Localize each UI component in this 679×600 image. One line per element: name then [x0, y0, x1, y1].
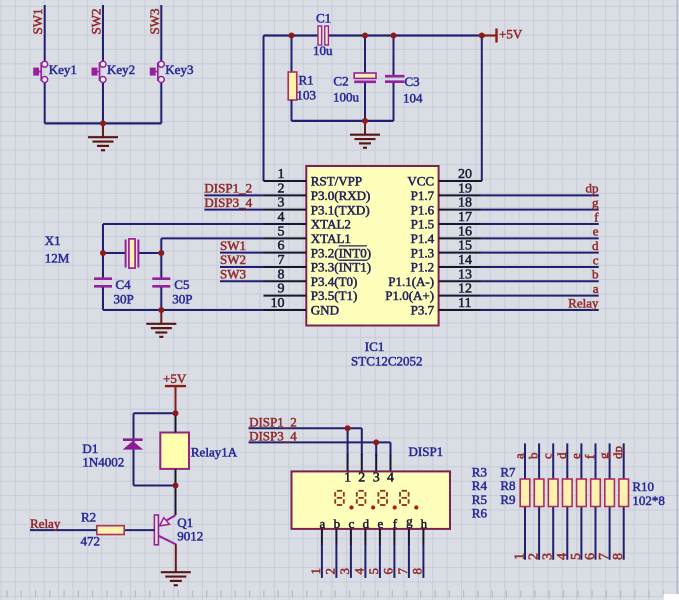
- svg-text:6: 6: [380, 568, 395, 575]
- svg-text:P3.3(INT1): P3.3(INT1): [311, 260, 371, 275]
- svg-text:g: g: [406, 514, 413, 529]
- svg-text:P1.5: P1.5: [411, 217, 434, 232]
- svg-text:f: f: [594, 209, 599, 224]
- svg-text:DISP3_4: DISP3_4: [249, 429, 297, 444]
- svg-text:dp: dp: [610, 446, 625, 459]
- svg-text:4: 4: [278, 210, 285, 225]
- svg-text:6: 6: [583, 553, 598, 560]
- svg-text:1: 1: [344, 471, 351, 486]
- svg-text:g: g: [596, 452, 611, 459]
- svg-text:a: a: [512, 453, 527, 459]
- svg-text:P3.2(INT0): P3.2(INT0): [311, 245, 371, 260]
- svg-text:b: b: [334, 516, 341, 531]
- svg-text:C2: C2: [333, 74, 348, 89]
- svg-text:R2: R2: [81, 510, 96, 525]
- svg-text:f: f: [582, 454, 597, 459]
- svg-text:Relay: Relay: [30, 516, 61, 531]
- svg-text:XTAL1: XTAL1: [311, 231, 351, 246]
- svg-text:a: a: [320, 516, 326, 531]
- svg-text:RST/VPP: RST/VPP: [311, 174, 362, 189]
- svg-text:13: 13: [458, 267, 472, 282]
- svg-text:12M: 12M: [45, 251, 70, 266]
- svg-text:b: b: [592, 267, 599, 282]
- svg-text:SW2: SW2: [89, 9, 104, 35]
- svg-text:2: 2: [527, 553, 542, 560]
- svg-text:P1.2: P1.2: [411, 260, 434, 275]
- svg-text:7: 7: [395, 568, 410, 575]
- svg-text:P1.1(A-): P1.1(A-): [388, 274, 434, 289]
- svg-text:b: b: [526, 453, 541, 460]
- svg-text:P3.4(T0): P3.4(T0): [311, 274, 358, 289]
- svg-text:X1: X1: [45, 233, 61, 248]
- svg-text:14: 14: [458, 253, 472, 268]
- svg-text:1: 1: [278, 167, 285, 182]
- svg-text:R5: R5: [472, 492, 487, 507]
- svg-text:3: 3: [373, 471, 380, 486]
- svg-text:R7: R7: [500, 464, 516, 479]
- svg-text:R4: R4: [472, 478, 488, 493]
- svg-text:9012: 9012: [177, 529, 203, 544]
- svg-text:18: 18: [458, 196, 472, 211]
- svg-text:STC12C2052: STC12C2052: [351, 354, 423, 369]
- svg-text:SW3: SW3: [147, 9, 162, 35]
- svg-text:30P: 30P: [114, 292, 134, 307]
- svg-text:P3.7: P3.7: [411, 303, 435, 318]
- svg-text:DISP1: DISP1: [409, 444, 444, 459]
- svg-text:4: 4: [387, 471, 394, 486]
- svg-text:SW1: SW1: [30, 9, 45, 35]
- svg-text:GND: GND: [311, 303, 339, 318]
- svg-text:C3: C3: [405, 74, 420, 89]
- svg-text:VCC: VCC: [407, 174, 434, 189]
- svg-text:R3: R3: [472, 464, 487, 479]
- svg-text:2: 2: [278, 181, 285, 196]
- svg-text:XTAL2: XTAL2: [311, 217, 351, 232]
- svg-text:Key1: Key1: [49, 62, 77, 77]
- svg-text:R6: R6: [472, 506, 488, 521]
- svg-text:Relay1A: Relay1A: [191, 445, 238, 460]
- svg-text:Key3: Key3: [165, 62, 193, 77]
- svg-text:a: a: [593, 281, 599, 296]
- svg-text:4: 4: [555, 553, 570, 560]
- svg-text:103: 103: [297, 88, 317, 103]
- svg-text:3: 3: [278, 196, 285, 211]
- svg-text:R1: R1: [299, 73, 314, 88]
- svg-text:C4: C4: [116, 277, 132, 292]
- svg-text:10u: 10u: [313, 43, 333, 58]
- svg-text:104: 104: [403, 91, 423, 106]
- svg-text:5: 5: [366, 568, 381, 575]
- svg-text:d: d: [554, 452, 569, 459]
- svg-text:SW3: SW3: [220, 267, 246, 282]
- svg-text:7: 7: [597, 553, 612, 560]
- svg-text:P3.1(TXD): P3.1(TXD): [311, 202, 370, 217]
- svg-text:e: e: [568, 453, 583, 459]
- svg-text:f: f: [393, 516, 398, 531]
- svg-text:15: 15: [458, 239, 472, 254]
- svg-text:10: 10: [271, 296, 285, 311]
- svg-text:c: c: [349, 516, 355, 531]
- svg-text:h: h: [421, 516, 428, 531]
- svg-text:Key2: Key2: [107, 62, 135, 77]
- svg-text:g: g: [592, 195, 599, 210]
- svg-text:DISP1_2: DISP1_2: [204, 181, 252, 196]
- svg-text:c: c: [540, 453, 555, 459]
- svg-text:5: 5: [278, 224, 285, 239]
- svg-text:5: 5: [569, 553, 584, 560]
- svg-text:e: e: [378, 516, 384, 531]
- svg-text:16: 16: [458, 224, 472, 239]
- svg-text:2: 2: [322, 568, 337, 575]
- svg-text:8: 8: [611, 553, 626, 560]
- svg-text:8: 8: [278, 267, 285, 282]
- svg-text:6: 6: [278, 239, 285, 254]
- svg-text:e: e: [593, 224, 599, 239]
- svg-text:IC1: IC1: [365, 339, 385, 354]
- svg-text:P1.4: P1.4: [411, 231, 435, 246]
- svg-text:2: 2: [358, 471, 365, 486]
- svg-text:R10: R10: [632, 479, 654, 494]
- svg-text:+5V: +5V: [163, 371, 187, 386]
- svg-text:R9: R9: [500, 492, 515, 507]
- svg-text:SW2: SW2: [220, 252, 246, 267]
- svg-text:17: 17: [458, 210, 472, 225]
- svg-text:d: d: [592, 238, 599, 253]
- svg-text:DISP3_4: DISP3_4: [204, 195, 252, 210]
- svg-text:1: 1: [308, 568, 323, 575]
- svg-text:100u: 100u: [333, 90, 360, 105]
- svg-text:SW1: SW1: [220, 238, 246, 253]
- svg-text:3: 3: [337, 568, 352, 575]
- svg-text:DISP1_2: DISP1_2: [249, 414, 297, 429]
- svg-text:P1.6: P1.6: [411, 202, 435, 217]
- svg-text:8: 8: [409, 568, 424, 575]
- svg-text:3: 3: [541, 553, 556, 560]
- svg-text:c: c: [593, 252, 599, 267]
- svg-text:19: 19: [458, 181, 472, 196]
- svg-text:P1.7: P1.7: [411, 188, 435, 203]
- svg-text:P3.0(RXD): P3.0(RXD): [311, 188, 371, 203]
- svg-text:7: 7: [278, 253, 285, 268]
- svg-text:P1.0(A+): P1.0(A+): [385, 288, 434, 303]
- svg-text:9: 9: [278, 282, 285, 297]
- svg-text:C5: C5: [174, 277, 189, 292]
- svg-text:dp: dp: [586, 181, 599, 196]
- svg-text:d: d: [363, 516, 370, 531]
- svg-text:12: 12: [458, 282, 472, 297]
- svg-text:11: 11: [458, 296, 471, 311]
- svg-text:P1.3: P1.3: [411, 245, 434, 260]
- svg-text:4: 4: [351, 568, 366, 575]
- svg-text:+5V: +5V: [499, 27, 523, 42]
- svg-text:Relay: Relay: [568, 295, 599, 310]
- svg-text:472: 472: [81, 534, 101, 549]
- svg-text:102*8: 102*8: [632, 493, 665, 508]
- svg-text:30P: 30P: [172, 292, 192, 307]
- svg-text:1N4002: 1N4002: [82, 455, 124, 470]
- svg-text:20: 20: [458, 167, 472, 182]
- svg-text:C1: C1: [316, 11, 331, 26]
- svg-text:P3.5(T1): P3.5(T1): [311, 288, 358, 303]
- svg-text:1: 1: [513, 553, 528, 560]
- svg-text:R8: R8: [500, 478, 515, 493]
